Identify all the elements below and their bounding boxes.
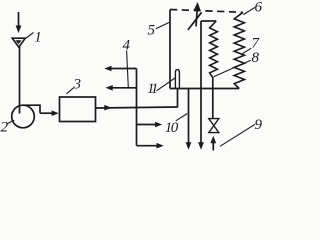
svg-text:6: 6	[255, 0, 263, 16]
apparatus box 3	[60, 97, 96, 122]
burner 11	[175, 70, 179, 89]
label 2 leader	[7, 120, 15, 124]
outlet arrow 4a	[104, 66, 136, 72]
label 11 leader	[157, 78, 176, 91]
svg-text:1: 1	[34, 30, 42, 46]
valve inlet arrow	[210, 136, 216, 151]
svg-text:9: 9	[255, 117, 263, 133]
coil 8 drain to valve	[212, 77, 214, 119]
outlet arrow 4b	[106, 85, 137, 91]
label 10 leader	[176, 114, 188, 121]
svg-text:8: 8	[252, 50, 260, 66]
valve 9	[209, 119, 219, 133]
label 5 leader	[156, 22, 170, 29]
coil 8 zigzag	[210, 21, 218, 77]
label 3 leader	[67, 88, 74, 94]
svg-text:4: 4	[123, 38, 131, 54]
vessel 5 left wall	[169, 10, 171, 89]
svg-text:10: 10	[165, 120, 179, 136]
pipe box3 to junction	[96, 105, 178, 111]
vessel drain pipe 10	[186, 89, 192, 150]
outlet arrow 10a	[137, 122, 163, 128]
label 9 leader	[220, 124, 255, 146]
label 7 leader	[242, 48, 251, 54]
label 1 leader	[26, 33, 34, 39]
svg-text:3: 3	[73, 77, 82, 93]
label 8 leader	[214, 60, 251, 76]
coil 8 top bend	[201, 20, 216, 22]
riser pipe for outlets 4	[136, 69, 138, 146]
outlet arrow 10b	[137, 143, 164, 149]
vent arrow through top	[188, 2, 202, 30]
feed arrow into funnel	[16, 12, 22, 33]
coil 7 zigzag right wall	[234, 12, 244, 88]
pump 2	[12, 104, 59, 127]
pipe junction up to vessel bottom	[177, 89, 179, 108]
pipe funnel to pump	[19, 47, 21, 114]
coil 8 supply pipe	[198, 21, 204, 150]
label 4 leader	[127, 51, 129, 88]
vessel 5 bottom	[170, 88, 239, 90]
svg-text:2: 2	[1, 120, 9, 136]
vessel 5 dashed top	[170, 10, 243, 13]
svg-text:11: 11	[147, 81, 157, 97]
svg-text:5: 5	[148, 23, 156, 39]
funnel 1	[12, 38, 25, 47]
label 6 leader	[243, 7, 255, 14]
